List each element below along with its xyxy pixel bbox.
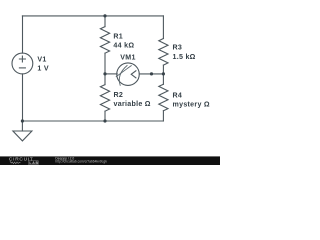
node B dot (R1/R2/VM1 junction) bbox=[103, 72, 106, 75]
svg-text:VM1: VM1 bbox=[120, 54, 135, 62]
resistor R2 (variable) zigzag bbox=[100, 85, 109, 112]
voltage source V1 circle bbox=[12, 53, 33, 74]
wire R1 bottom lead to node B bbox=[104, 53, 106, 74]
svg-text:1 V: 1 V bbox=[37, 65, 49, 73]
V1 plus sign bbox=[19, 56, 25, 62]
wire left rail lower (V1 to bottom rail) bbox=[22, 74, 24, 121]
wire VM1 right lead bbox=[139, 73, 163, 75]
footer logo squiggle glyph bbox=[10, 161, 21, 164]
wire VM1 left lead bbox=[105, 73, 117, 75]
ground triangle bbox=[13, 131, 32, 141]
svg-text:V1: V1 bbox=[37, 55, 46, 63]
VM1 meter scale arc bbox=[119, 66, 127, 86]
wire R2 top lead bbox=[104, 74, 106, 85]
svg-text:LAB: LAB bbox=[29, 161, 38, 165]
svg-text:mystery Ω: mystery Ω bbox=[173, 101, 210, 109]
node dot bottom-left (ground junction) bbox=[21, 119, 24, 122]
wire R4 bottom lead bbox=[162, 111, 164, 121]
svg-text:R4: R4 bbox=[173, 92, 183, 100]
wire bottom rail bbox=[22, 120, 163, 122]
node C dot (R3/R4/VM1 junction) bbox=[162, 72, 165, 75]
node dot top (R1/top rail junction) bbox=[103, 14, 106, 17]
resistor R1 (44 kOhm) zigzag bbox=[100, 27, 109, 54]
svg-text:R1: R1 bbox=[113, 32, 123, 40]
wire R3 bottom lead to node C bbox=[162, 65, 164, 74]
wire R4 top lead bbox=[162, 74, 164, 84]
wire R3 top lead bbox=[162, 16, 164, 39]
svg-text:44 kΩ: 44 kΩ bbox=[113, 41, 134, 49]
ground stem bbox=[21, 121, 23, 131]
node dot mid wire (VM1 right wire joint) bbox=[150, 72, 153, 75]
resistor R3 (1.5 kOhm) zigzag bbox=[159, 39, 168, 66]
voltmeter VM1 circle bbox=[117, 63, 140, 86]
node dot bottom (R2/bottom rail junction) bbox=[103, 119, 106, 122]
VM1 needle bbox=[116, 66, 131, 77]
svg-text:R2: R2 bbox=[114, 91, 124, 99]
resistor R4 (mystery) zigzag bbox=[159, 84, 168, 111]
footer bar bbox=[0, 156, 220, 165]
svg-text:http://circuitlab.com/c/7ab64k: http://circuitlab.com/c/7ab64kv9Lgk bbox=[55, 160, 107, 164]
V1 minus sign bbox=[19, 67, 25, 69]
svg-text:R3: R3 bbox=[173, 44, 183, 52]
wire R1 top lead bbox=[104, 16, 106, 27]
VM1 needle arrowhead bbox=[131, 71, 136, 78]
footer logo LAB box bbox=[29, 161, 39, 165]
svg-text:1.5 kΩ: 1.5 kΩ bbox=[173, 53, 196, 61]
wire top rail bbox=[22, 15, 163, 17]
wire R2 bottom lead bbox=[104, 111, 106, 121]
svg-text:variable Ω: variable Ω bbox=[114, 100, 151, 108]
wire left rail upper (top rail to V1) bbox=[22, 16, 24, 53]
